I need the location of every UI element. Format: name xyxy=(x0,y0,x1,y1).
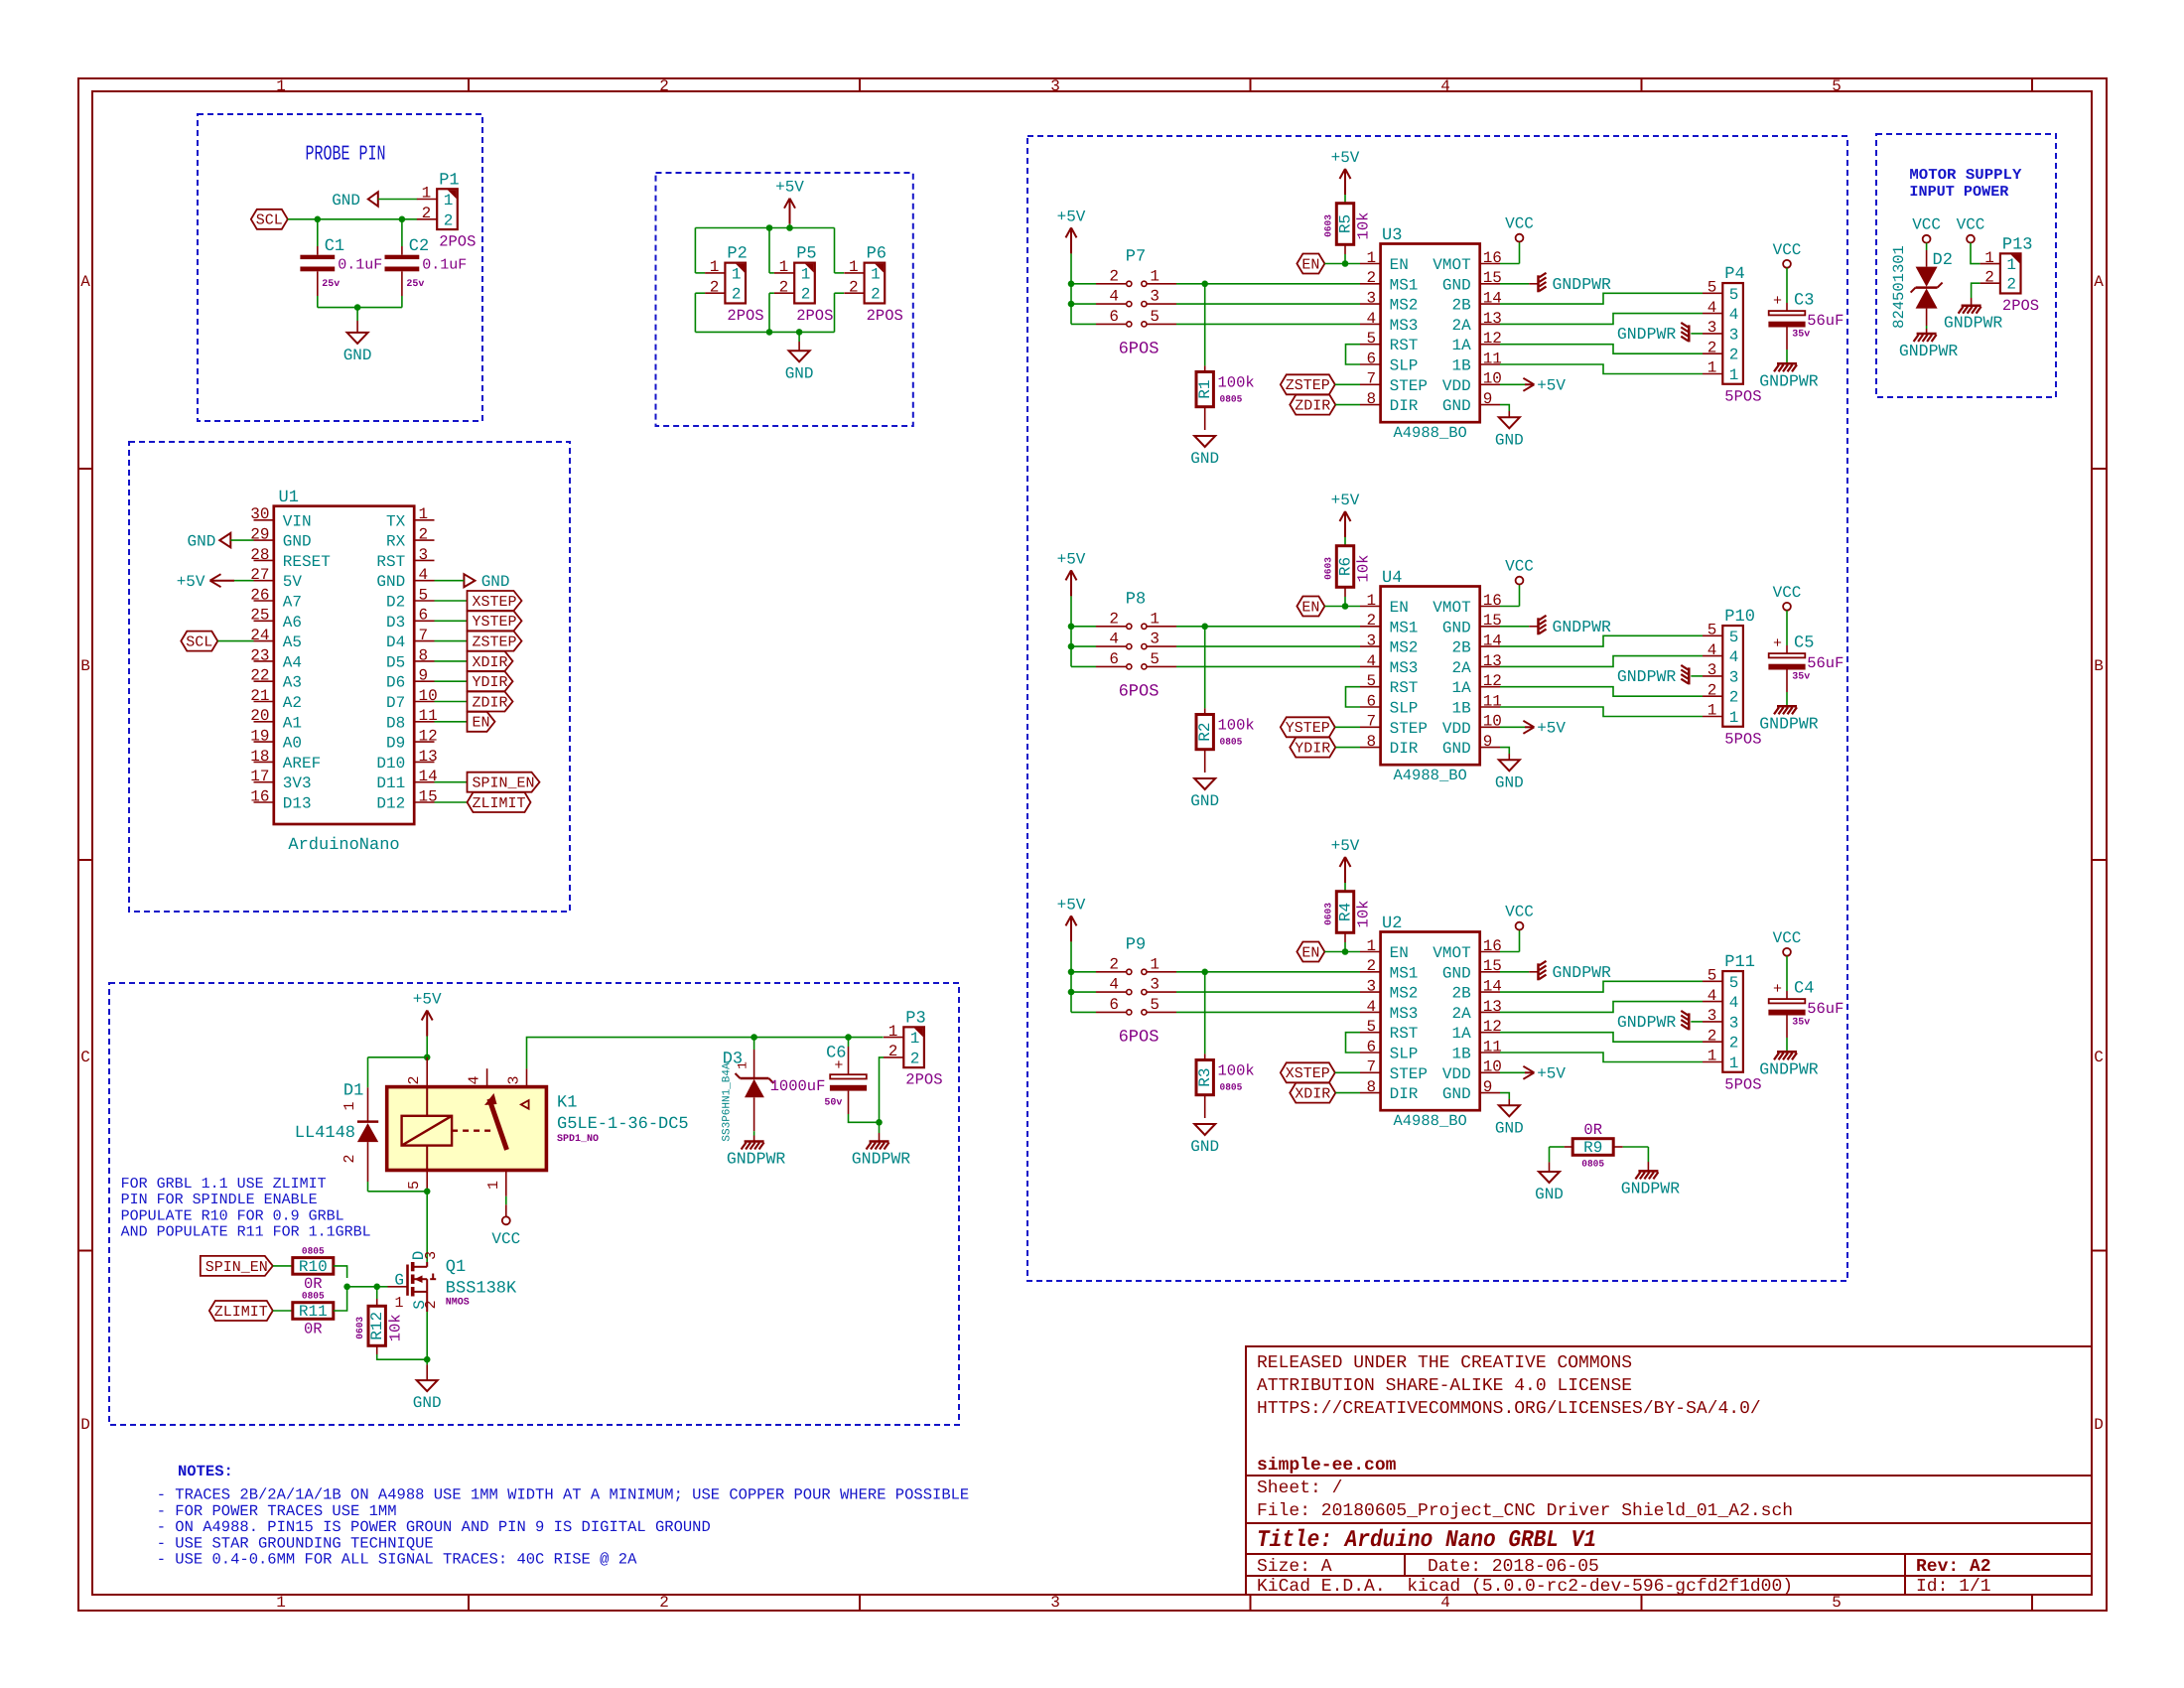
svg-text:0R: 0R xyxy=(1583,1121,1602,1139)
svg-text:D9: D9 xyxy=(386,735,405,753)
svg-text:+5V: +5V xyxy=(775,179,804,197)
power GNDPWR right of R9 xyxy=(1638,1170,1658,1173)
svg-text:D5: D5 xyxy=(386,653,405,671)
svg-text:2B: 2B xyxy=(1451,639,1470,657)
svg-text:ZLIMIT: ZLIMIT xyxy=(214,1304,268,1321)
svg-text:28: 28 xyxy=(250,546,269,564)
svg-text:14: 14 xyxy=(1483,633,1502,650)
node junction SCL/C1 xyxy=(315,216,322,223)
power GNDPWR at U2 pin15 xyxy=(1500,971,1529,973)
svg-text:30: 30 xyxy=(250,505,269,523)
svg-text:R2: R2 xyxy=(1196,722,1214,741)
svg-text:3: 3 xyxy=(1729,668,1739,686)
wire to GND symbol xyxy=(798,332,800,342)
svg-text:VCC: VCC xyxy=(1505,904,1534,921)
connector P4 5POS xyxy=(1722,283,1743,384)
wire U2 1B to P11 pin1 xyxy=(1500,1053,1703,1062)
svg-text:1A: 1A xyxy=(1451,679,1471,697)
node junction K1 pin5 D1 xyxy=(424,1189,431,1196)
svg-text:File: 20180605_Project_CNC Dri: File: 20180605_Project_CNC Driver Shield… xyxy=(1257,1501,1793,1521)
ic U4 A4988 stepper driver xyxy=(1381,587,1480,766)
svg-text:1: 1 xyxy=(394,1295,403,1312)
svg-text:7: 7 xyxy=(1366,713,1376,731)
node junction gate R12 xyxy=(373,1284,380,1291)
svg-text:20: 20 xyxy=(250,707,269,725)
svg-text:0805: 0805 xyxy=(1220,1082,1243,1093)
svg-text:9: 9 xyxy=(1483,733,1493,751)
svg-text:GND: GND xyxy=(1442,740,1471,758)
svg-text:+5V: +5V xyxy=(1331,149,1360,167)
svg-text:0805: 0805 xyxy=(302,1246,325,1257)
wire rail to P6 pin1 xyxy=(834,228,836,273)
svg-text:4: 4 xyxy=(1366,652,1376,670)
node junction +5V D1 K1 xyxy=(424,1055,431,1061)
svg-text:GND: GND xyxy=(1442,964,1471,982)
title block outline xyxy=(1246,1346,2091,1595)
svg-text:1: 1 xyxy=(779,258,789,276)
global label EN (U2) xyxy=(1297,942,1324,962)
svg-text:RST: RST xyxy=(1390,337,1419,354)
svg-text:DIR: DIR xyxy=(1390,1085,1419,1103)
svg-text:D12: D12 xyxy=(376,795,405,813)
svg-text:0603: 0603 xyxy=(1322,214,1333,237)
svg-text:1: 1 xyxy=(1366,249,1376,267)
resistor R4 10k 0603 xyxy=(1336,892,1353,933)
ground GND at U3 pin9 xyxy=(1500,405,1509,411)
svg-text:ArduinoNano: ArduinoNano xyxy=(288,836,399,855)
node junction MS1 R2 xyxy=(1201,624,1208,631)
svg-text:5: 5 xyxy=(1366,672,1376,690)
svg-text:PIN FOR SPINDLE ENABLE: PIN FOR SPINDLE ENABLE xyxy=(121,1192,318,1208)
svg-text:SPD1_NO: SPD1_NO xyxy=(557,1134,599,1145)
svg-text:XDIR: XDIR xyxy=(1295,1086,1330,1103)
relay K1 pin 4 xyxy=(486,1068,488,1086)
svg-text:STEP: STEP xyxy=(1390,377,1428,395)
section box jumpers P2 P5 P6 xyxy=(656,173,913,426)
svg-text:VMOT: VMOT xyxy=(1433,256,1470,274)
svg-text:2POS: 2POS xyxy=(439,233,476,251)
svg-text:GND: GND xyxy=(1535,1186,1564,1203)
svg-text:FOR GRBL 1.1 USE ZLIMIT: FOR GRBL 1.1 USE ZLIMIT xyxy=(121,1176,327,1193)
svg-text:2: 2 xyxy=(1707,681,1717,699)
svg-text:4: 4 xyxy=(419,566,429,584)
svg-text:GND: GND xyxy=(376,573,405,591)
svg-text:1: 1 xyxy=(419,505,429,523)
section box Arduino Nano xyxy=(129,442,570,912)
svg-text:+: + xyxy=(1773,293,1782,310)
svg-text:7: 7 xyxy=(1366,1058,1376,1076)
ground GND below R1 xyxy=(1194,436,1215,447)
svg-text:1B: 1B xyxy=(1451,357,1470,375)
ground GND below R2 xyxy=(1194,778,1215,789)
svg-text:Sheet: /: Sheet: / xyxy=(1257,1478,1342,1498)
relay K1 pin 5 xyxy=(426,1171,428,1192)
svg-text:+5V: +5V xyxy=(1057,208,1086,225)
svg-text:8: 8 xyxy=(1366,390,1376,408)
svg-text:2B: 2B xyxy=(1451,297,1470,315)
svg-text:A3: A3 xyxy=(283,674,302,692)
svg-text:5: 5 xyxy=(1150,308,1160,326)
svg-text:P9: P9 xyxy=(1126,936,1146,955)
svg-text:16: 16 xyxy=(1483,937,1502,955)
svg-text:2: 2 xyxy=(1109,610,1119,628)
svg-text:D2: D2 xyxy=(386,594,405,612)
node junction R10 R11 xyxy=(343,1284,350,1291)
svg-text:15: 15 xyxy=(1483,269,1502,287)
svg-text:19: 19 xyxy=(250,728,269,746)
global label EN (U3) xyxy=(1297,254,1324,274)
svg-text:18: 18 xyxy=(250,748,269,766)
svg-text:6: 6 xyxy=(1366,1038,1376,1055)
svg-text:11: 11 xyxy=(1483,1038,1502,1055)
hierarchical label EN at U1 xyxy=(435,721,468,723)
svg-text:VCC: VCC xyxy=(491,1230,520,1248)
svg-text:U2: U2 xyxy=(1382,914,1402,933)
svg-text:3: 3 xyxy=(1050,1594,1060,1612)
svg-text:1: 1 xyxy=(801,265,811,283)
svg-text:R6: R6 xyxy=(1337,557,1355,576)
svg-text:2: 2 xyxy=(444,211,454,229)
svg-text:2POS: 2POS xyxy=(2002,297,2039,315)
resistor R9 0R gnd tie xyxy=(1572,1139,1613,1156)
relay K1 G5LE-1-36-DC5 body xyxy=(387,1087,547,1171)
connector P2 xyxy=(725,263,746,304)
svg-text:R5: R5 xyxy=(1337,214,1355,233)
node junction source R12 xyxy=(424,1356,431,1363)
svg-text:5POS: 5POS xyxy=(1724,730,1761,748)
hierarchical label ZDIR at U1 xyxy=(435,701,468,703)
svg-text:GNDPWR: GNDPWR xyxy=(1944,314,2003,333)
hierarchical label SCL at U1 pin24 xyxy=(181,632,217,651)
svg-text:A4988_BO: A4988_BO xyxy=(1393,767,1466,784)
svg-text:4: 4 xyxy=(1729,648,1739,666)
svg-text:3: 3 xyxy=(1707,319,1717,337)
svg-text:B: B xyxy=(80,657,90,675)
hierarchical label XSTEP at U1 xyxy=(435,600,468,602)
svg-text:GND: GND xyxy=(1190,450,1219,468)
svg-text:2POS: 2POS xyxy=(905,1071,942,1089)
svg-text:3: 3 xyxy=(423,1251,440,1260)
svg-text:VIN: VIN xyxy=(283,512,312,530)
resistor R10 0R xyxy=(293,1258,334,1275)
wire Q1 source down xyxy=(426,1312,428,1364)
svg-text:5: 5 xyxy=(1150,650,1160,668)
svg-text:HTTPS://CREATIVECOMMONS.ORG/LI: HTTPS://CREATIVECOMMONS.ORG/LICENSES/BY-… xyxy=(1257,1399,1761,1419)
svg-text:VMOT: VMOT xyxy=(1433,944,1470,962)
svg-text:R11: R11 xyxy=(299,1303,328,1321)
svg-text:GNDPWR: GNDPWR xyxy=(1617,667,1677,686)
svg-text:GND: GND xyxy=(1190,1138,1219,1156)
svg-text:MS1: MS1 xyxy=(1390,276,1419,294)
svg-text:3: 3 xyxy=(1366,290,1376,308)
svg-text:MS3: MS3 xyxy=(1390,317,1419,335)
svg-text:B: B xyxy=(2094,657,2104,675)
svg-text:R10: R10 xyxy=(299,1258,328,1276)
svg-text:2: 2 xyxy=(871,286,881,304)
svg-text:2: 2 xyxy=(1707,1027,1717,1045)
svg-text:A4988_BO: A4988_BO xyxy=(1393,424,1466,442)
svg-text:GNDPWR: GNDPWR xyxy=(1759,714,1819,733)
svg-text:35v: 35v xyxy=(1792,1018,1810,1029)
svg-text:D7: D7 xyxy=(386,694,405,712)
svg-text:Q1: Q1 xyxy=(446,1258,466,1277)
svg-text:A2: A2 xyxy=(283,694,302,712)
svg-text:GND: GND xyxy=(1495,431,1524,449)
relay K1 pin 3 xyxy=(526,1068,528,1086)
wire U3 1B to P4 pin1 xyxy=(1500,364,1703,374)
svg-text:Title: Arduino Nano GRBL V1: Title: Arduino Nano GRBL V1 xyxy=(1257,1527,1596,1554)
svg-text:56uF: 56uF xyxy=(1807,312,1843,330)
ground GND at U2 pin9 xyxy=(1500,1093,1509,1099)
svg-text:1: 1 xyxy=(910,1030,920,1048)
wire U1 pin24 SCL xyxy=(217,640,253,642)
svg-text:5: 5 xyxy=(1729,974,1739,992)
svg-text:10k: 10k xyxy=(1355,901,1373,928)
wire R10 to gate node xyxy=(334,1266,347,1278)
svg-text:10k: 10k xyxy=(1355,212,1373,240)
svg-text:C2: C2 xyxy=(409,237,429,256)
svg-text:4: 4 xyxy=(1109,631,1119,648)
connector P3 xyxy=(903,1027,924,1067)
svg-text:GNDPWR: GNDPWR xyxy=(1899,342,1959,360)
wire R12 to source rail xyxy=(377,1354,428,1359)
svg-text:7: 7 xyxy=(419,627,429,644)
svg-text:56uF: 56uF xyxy=(1807,1000,1843,1018)
svg-text:0805: 0805 xyxy=(302,1291,325,1302)
svg-text:0.1uF: 0.1uF xyxy=(338,257,382,274)
svg-text:Size: A: Size: A xyxy=(1257,1557,1332,1577)
svg-text:6POS: 6POS xyxy=(1119,340,1160,358)
svg-text:P4: P4 xyxy=(1724,265,1744,284)
node junction gnd rail GND xyxy=(796,329,803,336)
diode D1 LL4148 xyxy=(367,1087,369,1122)
svg-text:VDD: VDD xyxy=(1442,720,1471,738)
wire SPIN_EN to R10 xyxy=(273,1265,293,1267)
svg-text:- USE STAR GROUNDING TECHNIQUE: - USE STAR GROUNDING TECHNIQUE xyxy=(157,1534,434,1552)
ground GND arrow at U1 pin4 xyxy=(464,574,475,587)
node junction C2/P1 xyxy=(399,216,406,223)
svg-text:C6: C6 xyxy=(826,1045,846,1063)
svg-text:5: 5 xyxy=(1366,330,1376,348)
svg-text:14: 14 xyxy=(1483,290,1502,308)
svg-text:DIR: DIR xyxy=(1390,740,1419,758)
ic U1 left pins xyxy=(254,519,274,521)
svg-text:R12: R12 xyxy=(368,1312,386,1340)
svg-text:1: 1 xyxy=(1707,359,1717,377)
svg-text:1: 1 xyxy=(710,258,720,276)
ground GND below R3 xyxy=(1194,1124,1215,1135)
svg-text:ZLIMIT: ZLIMIT xyxy=(472,795,525,812)
svg-text:12: 12 xyxy=(1483,330,1502,348)
wire U3 1A to P4 pin2 xyxy=(1500,345,1703,354)
svg-text:2: 2 xyxy=(1366,957,1376,975)
svg-text:2: 2 xyxy=(801,286,811,304)
resistor R1 100k xyxy=(1204,284,1206,366)
svg-text:3: 3 xyxy=(1150,288,1160,306)
svg-text:26: 26 xyxy=(250,586,269,604)
svg-text:A7: A7 xyxy=(283,594,302,612)
svg-text:D: D xyxy=(80,1416,90,1434)
svg-text:+: + xyxy=(1773,635,1782,652)
resistor R3 100k xyxy=(1204,972,1206,1055)
wire U3 2A to P4 pin4 xyxy=(1500,314,1703,325)
ic U1 right pins xyxy=(414,519,434,521)
node junction C6 P3 gnd xyxy=(876,1119,883,1126)
global label XSTEP xyxy=(1281,1062,1335,1082)
global label XDIR xyxy=(1290,1083,1335,1103)
ground GND left of R9 xyxy=(1539,1172,1560,1183)
svg-text:GNDPWR: GNDPWR xyxy=(1553,618,1612,636)
svg-text:5V: 5V xyxy=(283,573,303,591)
section box PROBE PIN xyxy=(198,114,482,421)
svg-text:GND: GND xyxy=(332,192,360,210)
svg-text:XSTEP: XSTEP xyxy=(1286,1065,1330,1082)
global label ZDIR xyxy=(1290,395,1335,415)
svg-text:4: 4 xyxy=(1366,310,1376,328)
svg-text:5: 5 xyxy=(1707,622,1717,639)
svg-text:D4: D4 xyxy=(386,633,405,651)
svg-text:1: 1 xyxy=(444,192,454,210)
hierarchical label XDIR at U1 xyxy=(435,660,468,662)
svg-text:1: 1 xyxy=(732,265,742,283)
svg-text:56uF: 56uF xyxy=(1807,654,1843,672)
svg-text:8: 8 xyxy=(419,646,429,664)
wire U4 2A to P10 pin4 xyxy=(1500,656,1703,667)
power VCC above C4 xyxy=(1783,948,1791,956)
resistor R12 10k xyxy=(376,1287,378,1299)
svg-text:KiCad E.D.A. kicad (5.0.0-rc2: KiCad E.D.A. kicad (5.0.0-rc2-dev-596-gc… xyxy=(1257,1577,1793,1597)
svg-text:D6: D6 xyxy=(386,674,405,692)
relay K1 NO contact mark xyxy=(521,1100,529,1109)
svg-text:C3: C3 xyxy=(1794,292,1814,311)
svg-text:MS3: MS3 xyxy=(1390,659,1419,677)
capacitor C5 56uF xyxy=(1786,611,1788,645)
svg-text:12: 12 xyxy=(419,728,438,746)
svg-text:3: 3 xyxy=(1707,661,1717,679)
svg-text:0.1uF: 0.1uF xyxy=(422,257,467,274)
svg-text:GND: GND xyxy=(1442,619,1471,636)
wire rail to P5 pin1 xyxy=(768,228,770,273)
svg-text:14: 14 xyxy=(1483,978,1502,996)
hierarchical label YSTEP at U1 xyxy=(435,620,468,622)
svg-text:simple-ee.com: simple-ee.com xyxy=(1257,1456,1397,1476)
svg-text:2: 2 xyxy=(1729,347,1739,364)
svg-text:A4: A4 xyxy=(283,653,302,671)
svg-text:GND: GND xyxy=(1442,276,1471,294)
svg-text:VCC: VCC xyxy=(1957,216,1985,234)
svg-text:16: 16 xyxy=(250,787,269,805)
svg-text:6: 6 xyxy=(1109,996,1119,1014)
svg-text:2: 2 xyxy=(1707,339,1717,356)
svg-text:4: 4 xyxy=(1109,976,1119,994)
svg-text:13: 13 xyxy=(1483,310,1502,328)
svg-text:15: 15 xyxy=(1483,612,1502,630)
svg-text:2: 2 xyxy=(341,1154,358,1163)
power +5V at U4 pin10 VDD xyxy=(1500,726,1525,728)
svg-text:A5: A5 xyxy=(283,633,302,651)
hierarchical label SCL xyxy=(251,210,288,229)
node junction EN R6 xyxy=(1342,603,1349,610)
wire P6 pin2 drop xyxy=(835,292,845,294)
svg-text:U1: U1 xyxy=(279,489,299,507)
svg-text:ZSTEP: ZSTEP xyxy=(472,634,516,651)
wire U2 1A to P11 pin2 xyxy=(1500,1033,1703,1043)
svg-text:RST: RST xyxy=(1390,1025,1419,1043)
svg-text:P2: P2 xyxy=(727,245,747,264)
svg-text:A: A xyxy=(80,273,90,291)
svg-text:Date: 2018-06-05: Date: 2018-06-05 xyxy=(1428,1557,1599,1577)
svg-text:1: 1 xyxy=(2006,256,2016,274)
svg-text:A1: A1 xyxy=(283,714,302,732)
svg-text:2: 2 xyxy=(910,1050,920,1067)
svg-text:A6: A6 xyxy=(283,614,302,632)
svg-text:1000uF: 1000uF xyxy=(770,1077,826,1095)
svg-text:EN: EN xyxy=(1301,944,1319,961)
svg-text:1: 1 xyxy=(871,265,881,283)
svg-text:5: 5 xyxy=(1832,77,1842,95)
power GNDPWR below C3 xyxy=(1777,362,1797,365)
power GNDPWR below C5 xyxy=(1777,705,1797,708)
wire U2 2B to P11 pin5 xyxy=(1500,981,1703,992)
svg-text:K1: K1 xyxy=(557,1094,577,1113)
svg-text:C5: C5 xyxy=(1794,634,1814,653)
wire P3 pin2 down xyxy=(880,1057,885,1122)
svg-text:MS1: MS1 xyxy=(1390,619,1419,636)
resistor R11 0R xyxy=(293,1303,334,1320)
svg-text:5POS: 5POS xyxy=(1724,1075,1761,1093)
svg-text:+5V: +5V xyxy=(1331,837,1360,855)
svg-text:25v: 25v xyxy=(406,279,424,290)
diode D3 TVS xyxy=(753,1038,755,1050)
svg-text:+5V: +5V xyxy=(1331,492,1360,509)
svg-text:25: 25 xyxy=(250,607,269,625)
power GNDPWR below P3 xyxy=(870,1140,889,1143)
svg-text:6: 6 xyxy=(1366,692,1376,710)
svg-text:G: G xyxy=(394,1272,404,1290)
node junction bus pin2 (P8) xyxy=(1068,624,1075,631)
svg-text:2A: 2A xyxy=(1451,659,1471,677)
svg-text:6: 6 xyxy=(1109,308,1119,326)
svg-text:2: 2 xyxy=(849,278,859,296)
svg-text:3: 3 xyxy=(1707,1007,1717,1025)
svg-text:TX: TX xyxy=(386,512,406,530)
svg-text:2: 2 xyxy=(732,286,742,304)
svg-text:A4988_BO: A4988_BO xyxy=(1393,1112,1466,1130)
svg-text:0603: 0603 xyxy=(1322,557,1333,580)
svg-text:5POS: 5POS xyxy=(1724,387,1761,405)
svg-text:1: 1 xyxy=(422,185,432,203)
svg-text:1: 1 xyxy=(1707,702,1717,720)
ic U3 A4988 stepper driver xyxy=(1381,244,1480,423)
svg-text:RST: RST xyxy=(376,553,405,571)
svg-text:P1: P1 xyxy=(439,171,459,190)
svg-text:VCC: VCC xyxy=(1505,558,1534,576)
svg-text:8: 8 xyxy=(1366,1078,1376,1096)
svg-text:2: 2 xyxy=(1109,955,1119,973)
ground GND below Q1 xyxy=(417,1380,438,1391)
wire RST SLP jumper (U4) xyxy=(1346,687,1361,707)
capacitor C3 56uF xyxy=(1786,268,1788,303)
svg-text:9: 9 xyxy=(419,667,429,685)
svg-text:P11: P11 xyxy=(1724,953,1755,972)
wire ZLIMIT to R11 xyxy=(273,1310,293,1312)
svg-text:GND: GND xyxy=(187,533,215,551)
wire C1 C2 ground rail xyxy=(317,296,319,308)
wire to Q1 gate xyxy=(377,1286,388,1288)
node junction ground rail xyxy=(354,304,361,311)
svg-text:YDIR: YDIR xyxy=(472,674,507,691)
relay K1 pin 1 VCC xyxy=(505,1171,507,1196)
